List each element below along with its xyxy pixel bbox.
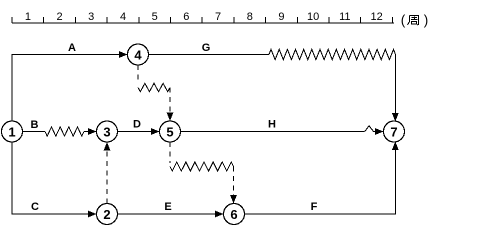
node 7 (384, 121, 405, 142)
svg-text:5: 5 (152, 11, 158, 23)
svg-text:G: G (202, 42, 211, 54)
activity F arrow: node 6 right and up into node 7 (245, 150, 396, 214)
svg-text:7: 7 (390, 125, 397, 140)
svg-text:11: 11 (339, 11, 350, 23)
svg-text:B: B (31, 119, 39, 131)
svg-text:7: 7 (215, 11, 221, 23)
svg-text:9: 9 (278, 11, 284, 23)
svg-text:1: 1 (8, 125, 15, 140)
arrowhead into node 6 (215, 211, 224, 218)
activity A arrow: node 1 up and right to node 4 (12, 55, 120, 122)
time-scale ruler baseline (12, 22, 394, 24)
ruler unit label (周) (401, 13, 429, 28)
activity E arrow: node 2 to node 6 (118, 213, 216, 215)
arrowhead into node 4 (119, 51, 128, 58)
svg-text:2: 2 (56, 11, 62, 23)
arrowhead into node 7 left (375, 128, 384, 135)
arrowhead into node 6 top (230, 195, 237, 204)
B free-float zigzag (45, 127, 84, 136)
H small free-float tooth (365, 126, 375, 132)
arrowhead into node 2 (88, 211, 97, 218)
arrowhead into node 3 bottom (104, 142, 111, 151)
ruler tick week 11 (360, 17, 362, 23)
svg-text:(: ( (401, 13, 406, 28)
svg-text:6: 6 (230, 207, 237, 222)
ruler tick week 1 (43, 17, 45, 23)
svg-text:F: F (311, 201, 318, 213)
node 6 (224, 204, 245, 225)
node 3 (97, 121, 118, 142)
ruler tick week 3 (106, 17, 108, 23)
arrowhead into node 5 (151, 128, 160, 135)
ruler tick week 7 (233, 17, 235, 23)
arrowhead into node 7 top (392, 113, 399, 122)
svg-text:3: 3 (88, 11, 94, 23)
ruler tick week 5 (170, 17, 172, 23)
G vertical drop to node 7 (395, 55, 397, 114)
ruler tick week 9 (296, 17, 298, 23)
svg-text:H: H (268, 119, 276, 131)
svg-text:3: 3 (103, 125, 110, 140)
svg-text:4: 4 (134, 48, 142, 63)
dummy 5-6 zigzag (170, 162, 234, 171)
svg-text:E: E (164, 201, 171, 213)
ruler tick week 12 (391, 17, 393, 23)
ruler tick week 8 (265, 17, 267, 23)
svg-text:12: 12 (370, 11, 382, 23)
dummy 4-5 zigzag (138, 83, 170, 91)
activity H arrow: node 5 to node 7 with small zigzag (181, 131, 365, 133)
ruler tick week 10 (328, 17, 330, 23)
svg-text:8: 8 (247, 11, 253, 23)
dummy arrow node 2 to node 3 (dashed vertical) (106, 150, 108, 204)
arrowhead into node 5 top (167, 113, 174, 122)
svg-text:A: A (68, 42, 76, 54)
svg-text:C: C (31, 201, 39, 213)
node 4 (128, 44, 149, 65)
ruler tick week 0 (11, 17, 13, 23)
svg-text:D: D (133, 119, 141, 131)
dummy arrow node 4 to node 5 (dashed with zigzag) (137, 65, 139, 84)
arrowhead into node 3 (88, 128, 97, 135)
arrowhead into node 7 bottom (392, 142, 399, 151)
activity G arrow: node 4 right, free-float zigzag, down into node 7 (149, 54, 270, 56)
node 5 (160, 121, 181, 142)
ruler tick week 6 (201, 17, 203, 23)
svg-text:6: 6 (183, 11, 189, 23)
node 1 (2, 121, 23, 142)
node 2 (97, 204, 118, 225)
svg-text:2: 2 (103, 207, 110, 222)
svg-text:5: 5 (166, 125, 173, 140)
activity B arrow: node 1 to node 3 with free-float zigzag (23, 131, 46, 133)
svg-text:4: 4 (120, 11, 126, 23)
activity C arrow: node 1 down and right to node 2 (12, 142, 89, 214)
svg-text:): ) (424, 13, 429, 28)
G free-float zigzag (269, 49, 396, 59)
dummy arrow node 5 to node 6 (dashed with zigzag) (169, 142, 171, 163)
svg-text:10: 10 (307, 11, 319, 23)
svg-text:1: 1 (25, 11, 31, 23)
ruler tick week 2 (74, 17, 76, 23)
ruler tick week 4 (138, 17, 140, 23)
activity D arrow: node 3 to node 5 (118, 131, 152, 133)
